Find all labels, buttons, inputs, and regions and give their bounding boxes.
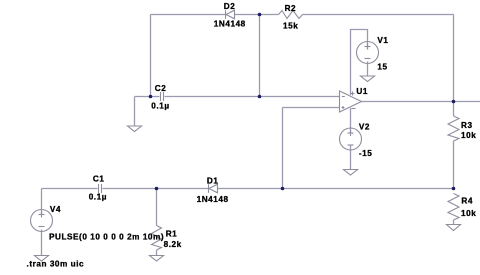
svg-text:PULSE(0 10 0 0 0 2m 10m): PULSE(0 10 0 0 0 2m 10m) — [49, 232, 164, 241]
svg-text:8.2k: 8.2k — [164, 240, 182, 249]
voltage source V4 — [31, 210, 53, 232]
wire ground stub drop at C2 node — [134, 97, 136, 127]
ground below V2 — [344, 170, 358, 176]
wire noninverting riser — [282, 108, 284, 189]
svg-text:1N4148: 1N4148 — [197, 195, 229, 204]
capacitor C2 — [161, 92, 164, 101]
op-amp U1 — [340, 91, 362, 112]
resistor R3 — [448, 116, 459, 141]
wire V1 negative lead to ground — [367, 62, 369, 76]
wire R1 top lead — [156, 189, 158, 226]
svg-text:1N4148: 1N4148 — [214, 19, 246, 28]
svg-text:.tran 30m uic: .tran 30m uic — [27, 259, 85, 268]
node dot output junction — [452, 100, 456, 104]
wire R4 bottom lead — [453, 220, 455, 225]
wire from D1 to feedback node under R3 — [218, 188, 454, 190]
svg-text:R2: R2 — [285, 4, 297, 13]
voltage source V1 — [357, 42, 379, 64]
resistor R1 — [152, 226, 162, 251]
wire left vertical from top rail to C2 node — [150, 15, 152, 97]
node dot C2 left junction — [149, 95, 153, 99]
node dot D2-R2 junction — [258, 13, 262, 17]
wire inverting input rail from ground stub to C2 — [135, 96, 160, 98]
svg-text:C2: C2 — [155, 84, 167, 93]
resistor R2 — [279, 11, 303, 19]
wire V2 negative lead to ground — [350, 146, 352, 170]
capacitor C1 — [99, 184, 102, 193]
wire op-amp output to right edge — [362, 101, 480, 103]
svg-text:D1: D1 — [207, 177, 219, 186]
node dot noninverting riser junction — [281, 187, 285, 191]
svg-text:0.1µ: 0.1µ — [89, 192, 107, 201]
svg-text:R4: R4 — [461, 197, 473, 206]
node dot inverting rail junction — [258, 95, 262, 99]
wire V4 riser — [41, 189, 43, 215]
voltage source V2 — [340, 128, 362, 150]
wire right vertical from top rail to output node — [453, 15, 455, 102]
svg-text:V1: V1 — [377, 36, 388, 45]
wire op-amp V- pin to V2 — [350, 108, 352, 134]
resistor R4 — [448, 194, 459, 221]
diode D1 — [209, 184, 218, 193]
ground at C2 node — [128, 126, 142, 132]
node dot R3-R4 junction — [452, 187, 456, 191]
node dot C1-R1-D1 junction — [155, 187, 159, 191]
diode D2 — [226, 10, 235, 19]
wire R1 bottom lead — [156, 250, 158, 256]
svg-text:C1: C1 — [93, 175, 105, 184]
ground below V4 — [35, 256, 49, 262]
svg-text:-15: -15 — [359, 149, 372, 158]
wire top rail between D2 and R2 — [235, 14, 279, 16]
wire top rail right segment — [303, 14, 454, 16]
svg-text:R3: R3 — [461, 121, 473, 130]
wire from C2 to op-amp inverting input — [165, 96, 340, 98]
wire R3 top lead — [453, 102, 455, 117]
svg-text:0.1µ: 0.1µ — [151, 102, 169, 111]
svg-text:10k: 10k — [461, 209, 476, 218]
wire bottom rail from V4 riser to C1 — [42, 188, 98, 190]
ground below R4 — [447, 225, 461, 231]
wire top rail left segment — [151, 14, 226, 16]
wire from C1 to D1 — [103, 188, 209, 190]
wire V4 bottom lead — [41, 230, 43, 256]
svg-text:15: 15 — [377, 62, 387, 71]
svg-text:10k: 10k — [461, 131, 476, 140]
wire to op-amp noninverting input — [283, 107, 340, 109]
ground below R1 — [150, 256, 164, 262]
wire V1 positive lead route to op-amp V+ pin — [351, 30, 368, 96]
wire R3 bottom lead to feedback node — [453, 141, 455, 189]
ground below V1 — [361, 76, 375, 82]
svg-text:15k: 15k — [283, 21, 298, 30]
svg-text:V4: V4 — [50, 205, 61, 214]
svg-text:U1: U1 — [356, 87, 368, 96]
svg-text:V2: V2 — [359, 123, 370, 132]
svg-text:D2: D2 — [224, 2, 236, 11]
svg-text:R1: R1 — [166, 229, 178, 238]
wire mid vertical from D2-R2 node down to inverting rail — [259, 15, 261, 97]
